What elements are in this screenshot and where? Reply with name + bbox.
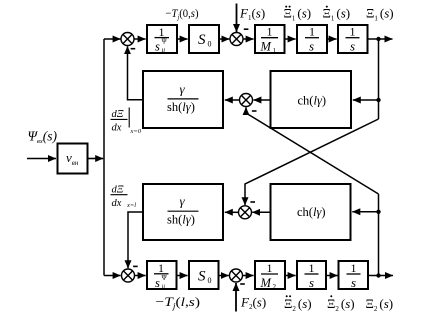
svg-text:1: 1 [350,25,356,39]
wire S1 to block 1/sij [134,38,146,40]
svg-text:1: 1 [267,261,273,275]
label dXi/dx at x=0 [111,108,142,136]
block 1/sij top [147,25,177,53]
svg-text:γ: γ [180,82,186,97]
wire input Psi to nu block [27,158,56,160]
label nu_vn in block [66,150,79,167]
block ch top [271,71,352,128]
svg-text:dΞ: dΞ [112,109,124,120]
svg-text:−Tj(l,s): −Tj(l,s) [156,294,201,311]
block text integrator 4 [347,261,361,290]
node dot output Xi1 [376,37,380,41]
svg-text:sh(lγ): sh(lγ) [167,100,195,114]
minus sign S4 [250,201,255,203]
svg-text:F2(s): F2(s) [240,295,266,312]
wire Xi1 feedback vertical right [378,39,380,119]
block S0 bottom [189,261,219,289]
wire to summer S1 [104,38,121,40]
wire ch top to summer S3 [253,99,269,101]
svg-text:γ: γ [180,194,186,209]
svg-text:Ξ1(s): Ξ1(s) [323,6,351,23]
wire ch bottom to summer S4 [252,211,269,213]
block 1/M1 [255,25,285,53]
svg-text:S: S [198,32,206,48]
block integrator 4 [339,261,369,289]
svg-text:dx: dx [112,123,122,134]
svg-text:Ξ2(s): Ξ2(s) [284,296,312,313]
block text integrator 1 [305,25,319,54]
wire S4 to gamma-sh bottom [225,211,239,213]
wire Xi2 feedback vertical right [378,194,380,276]
block integrator 1 [297,25,327,53]
block text gamma/sh bottom [167,194,199,227]
svg-text:ch(lγ): ch(lγ) [298,93,327,107]
wire cross from Xi1 line down to summer S4 [245,119,379,205]
svg-text:1: 1 [158,261,164,275]
svg-text:s: s [350,39,355,54]
summer S1 [121,33,134,46]
wire gamma-sh bottom output feedback to S5 [128,212,142,268]
svg-text:S: S [198,269,206,285]
svg-text:s: s [155,40,160,54]
block text ch bottom [297,205,326,219]
svg-text:sh(lγ): sh(lγ) [167,213,195,227]
block 1/sij bottom [147,261,177,289]
node dot output Xi2 [376,273,380,277]
svg-text:1: 1 [309,25,315,39]
svg-text:Ψ: Ψ [162,38,168,46]
svg-text:dx: dx [112,198,122,209]
svg-text:ij: ij [162,284,166,291]
svg-text:Ξ1(s): Ξ1(s) [366,6,394,23]
wire output Xi2 [369,275,393,277]
wire S3 to gamma-sh top [225,99,240,101]
label Psi_vx(s) input [28,129,58,146]
block text integrator 2 [346,25,360,54]
summer S3 [240,94,253,107]
svg-text:x=0: x=0 [130,128,142,135]
label Xi-ddot-1(s) [284,6,312,23]
wire S0 bottom to summer S6 [220,275,229,277]
svg-text:s: s [309,39,314,54]
node dot ch bottom input [376,210,380,214]
svg-text:s: s [155,276,160,290]
label -T_j(l,s) [156,294,201,311]
block integrator 3 [297,261,326,289]
block S0 top [189,25,219,53]
svg-text:Ξ1(s): Ξ1(s) [284,6,312,23]
svg-text:s: s [309,275,314,290]
svg-text:Ξ2(s): Ξ2(s) [327,296,355,313]
svg-text:ch(lγ): ch(lγ) [297,205,326,219]
summer S6 [230,269,243,282]
summer S4 [239,206,252,219]
wire S2 to block 1/M1 [243,38,254,40]
label Xi-dot-1(s) [323,6,351,23]
minus sign S6 [240,283,245,285]
block 1/M2 [255,261,285,289]
label dXi/dx at x=l [111,185,137,210]
block text 1/M1 [260,25,279,56]
block text S0 bottom [198,269,212,286]
block gamma/sh bottom [143,184,223,240]
wire F2 input arrow [235,283,237,312]
label -T_j(0,s) [166,6,199,22]
wire cross from Xi2 line up to summer S3 [246,107,379,194]
node dot ch top input [376,98,380,102]
svg-text:x=l: x=l [126,202,136,209]
block text 1/sij bottom [154,261,169,291]
svg-text:1: 1 [351,261,357,275]
svg-text:M: M [260,276,272,290]
wire integrator 1 to integrator 2 [328,38,337,40]
label Xi_2(s) [366,296,394,313]
wire left distribution vertical [103,39,105,276]
block text gamma/sh top [167,82,199,115]
wire 1/sij to S0 top [178,38,188,40]
label Xi-dot-2(s) [327,295,355,313]
label F2(s) [240,295,266,312]
minus sign S2 [244,28,249,30]
block text 1/M2 [260,261,279,291]
block text ch top [298,93,327,107]
wire into ch bottom block [352,211,378,213]
svg-text:0: 0 [208,276,212,285]
wire to summer S5 [104,275,121,277]
label Xi-ddot-2(s) [284,295,312,313]
block text integrator 3 [305,261,319,290]
wire S5 to block 1/sij bottom [135,275,146,277]
label Xi_1(s) [366,6,394,23]
summer S2 [230,33,243,46]
svg-text:F1(s): F1(s) [239,6,265,23]
svg-text:1: 1 [273,47,277,55]
wire output Xi1 [369,38,393,40]
block nu input gain [58,144,88,174]
minus sign S5 [133,265,138,267]
wire S0 top to summer S2 [220,38,229,40]
svg-text:dΞ: dΞ [112,185,124,196]
svg-text:1: 1 [267,25,273,39]
minus sign S3 [252,110,257,112]
wire S6 to block 1/M2 [243,275,254,277]
svg-text:ij: ij [162,47,166,54]
wire integrator 3 to integrator 4 [327,275,338,277]
wire 1/sij bottom to S0 bottom [178,275,188,277]
svg-text:s: s [351,275,356,290]
wire nu output to left distribution node [89,158,104,160]
summer S5 [122,269,135,282]
svg-text:−Tj(0,s): −Tj(0,s) [166,6,199,22]
wire gamma-sh top output feedback to S1 [128,46,143,99]
block gamma/sh top [143,71,223,128]
svg-text:2: 2 [273,283,277,291]
svg-text:Ξ2(s): Ξ2(s) [366,296,394,313]
svg-text:1: 1 [309,261,315,275]
label F1(s) [239,6,265,23]
wire into ch top block [353,99,379,101]
wire F1 input arrow [236,4,238,33]
wire 1/M1 to integrator 1 [286,38,296,40]
block text S0 top [198,32,212,49]
svg-text:Ψвх(s): Ψвх(s) [28,129,58,146]
svg-text:Ψ: Ψ [162,274,168,282]
block integrator 2 [338,25,368,53]
svg-text:M: M [260,40,272,54]
block text 1/sij top [155,25,170,54]
block ch bottom [271,184,351,240]
svg-text:0: 0 [208,40,212,49]
minus sign S1 [131,48,136,50]
wire 1/M2 to integrator 3 [286,275,296,277]
